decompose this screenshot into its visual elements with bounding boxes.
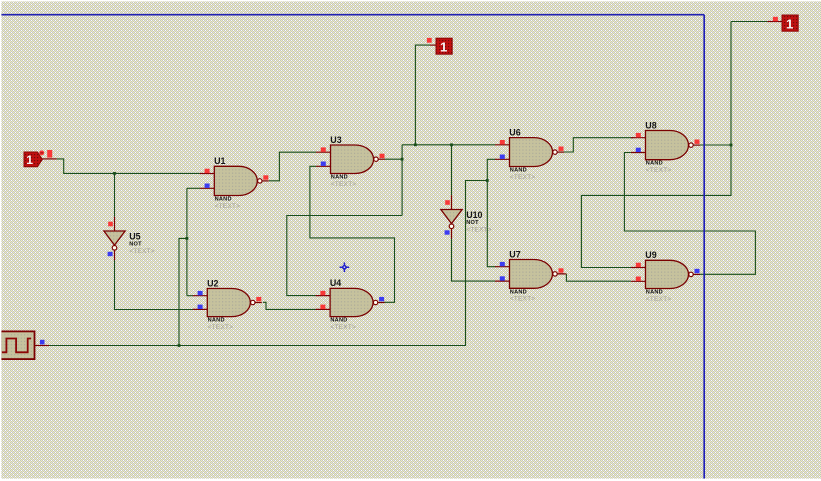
svg-text:NAND: NAND: [330, 318, 347, 324]
svg-text:<TEXT>: <TEXT>: [331, 181, 357, 188]
logic probe P2 (top right, shows 1): [767, 15, 798, 31]
NAND gate U2: [193, 278, 262, 331]
wire branch down to U5 input: [114, 173, 116, 216]
wire U6.B to U7.A vertical with CLK junction: [487, 159, 495, 266]
svg-text:1: 1: [440, 39, 447, 54]
wire drop to U10 input: [451, 145, 453, 196]
wire U9 output feedback to U8.B: [624, 153, 755, 275]
svg-text:U2: U2: [207, 278, 218, 288]
wire U3 output node vertical x=402: [385, 145, 402, 216]
U7 output pin segment: [557, 273, 566, 275]
svg-text:NOT: NOT: [466, 220, 479, 226]
wire U7 output to U9.B: [566, 274, 631, 281]
svg-text:NAND: NAND: [646, 290, 663, 296]
svg-text:NOT: NOT: [129, 242, 142, 248]
NAND gate U4: [316, 278, 385, 331]
svg-text:NAND: NAND: [510, 168, 527, 174]
svg-text:U5: U5: [129, 231, 140, 241]
clock generator (DCLOCK) bottom-left: [1, 331, 50, 359]
svg-text:1: 1: [26, 153, 33, 167]
svg-text:<TEXT>: <TEXT>: [330, 324, 356, 331]
wire U2 output to U4.B: [263, 302, 316, 309]
svg-text:U7: U7: [509, 249, 520, 259]
svg-text:U10: U10: [466, 210, 482, 220]
wire logicstate D1 output to U1.A and U5 input (node row y=173): [57, 159, 200, 174]
wire U1.B to U2.A vertical: [186, 188, 188, 295]
wire U4.A feedback from node x=402: [287, 216, 402, 296]
wire stub into U2.A: [187, 295, 193, 297]
NOT gate (inverter) U5: [104, 217, 155, 261]
wire U3.B cross-couple from U4 output: [310, 166, 395, 302]
junction node U3.out at (402,159): [401, 158, 404, 161]
svg-text:U8: U8: [645, 120, 656, 130]
junction node riser to probe at (415,145): [414, 143, 417, 146]
wire U3 output row to U6.A: [402, 144, 495, 146]
DCLOCK pin logic-level square (blue): [40, 340, 45, 345]
junction node U8.out at (731,145): [730, 144, 733, 147]
wire U5 output down to U2.B row: [115, 260, 194, 310]
junction node CLK at x=179 on clock rail: [178, 344, 181, 347]
svg-text:U9: U9: [645, 250, 656, 260]
svg-text:<TEXT>: <TEXT>: [129, 248, 155, 255]
NAND gate U6: [495, 127, 564, 180]
svg-text:U6: U6: [509, 127, 520, 137]
svg-text:U1: U1: [214, 156, 225, 166]
D1 toggle dot marker: [39, 150, 44, 155]
P2 pin logic-level square (red): [773, 17, 778, 21]
svg-text:NAND: NAND: [510, 289, 527, 295]
junction node U10 input at (451,145): [450, 143, 453, 146]
junction node CLK joins U6.B/U7.A at (487,180): [486, 179, 489, 182]
wire clock net horizontal from DCLOCK to x=465 and up to CLK distribution: [49, 181, 487, 346]
svg-text:U3: U3: [330, 135, 341, 145]
NOT gate (inverter) U10: [441, 195, 492, 239]
svg-text:<TEXT>: <TEXT>: [208, 324, 234, 331]
svg-text:<TEXT>: <TEXT>: [466, 226, 492, 233]
svg-text:NAND: NAND: [646, 161, 663, 167]
NAND gate U3: [316, 135, 385, 188]
NAND gate U1: [200, 156, 269, 210]
svg-text:NAND: NAND: [208, 318, 225, 324]
junction node A (D1/U5/U1.A): [113, 172, 116, 175]
NAND gate U7: [495, 249, 564, 302]
wire U1 output up to U3.A: [269, 152, 316, 181]
wire stub into U1.B: [187, 187, 200, 189]
svg-text:<TEXT>: <TEXT>: [646, 296, 672, 303]
P1 pin logic-level square (red): [427, 38, 432, 43]
svg-text:<TEXT>: <TEXT>: [646, 167, 672, 174]
NAND gate U9: [631, 250, 700, 303]
wire riser to logic probe (top centre): [415, 45, 430, 145]
junction node CLK jog at (186.9,238.4): [186, 237, 189, 240]
svg-text:NAND: NAND: [331, 175, 348, 181]
D1 pin logic-level square (red): [47, 150, 52, 158]
svg-text:1: 1: [786, 16, 793, 31]
svg-text:<TEXT>: <TEXT>: [510, 174, 536, 181]
logic state input D1 (value 1, top-left): [24, 150, 57, 167]
NAND gate U8: [631, 120, 700, 174]
svg-text:<TEXT>: <TEXT>: [510, 296, 536, 303]
svg-text:NAND: NAND: [215, 197, 232, 203]
svg-text:<TEXT>: <TEXT>: [215, 203, 241, 210]
logic probe P1 (top centre, shows 1): [427, 38, 452, 54]
wire U6 output to U8.A: [564, 138, 634, 152]
wire U8 output node to top-right probe and feedback: [581, 22, 767, 268]
wire clock branch up at x=179 with jog to U1.B / U2.A vertical: [179, 238, 187, 345]
svg-text:U4: U4: [330, 278, 341, 288]
origin marker (blue crosshair): [340, 262, 350, 272]
wire U10 output down to U7.B: [452, 238, 496, 281]
